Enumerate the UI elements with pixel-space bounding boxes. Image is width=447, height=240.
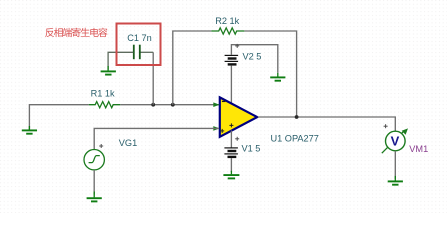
plus marker V1 [235,137,239,141]
wire: V2 positive to ground [231,45,277,73]
junction node at R2 tap [171,103,175,107]
input pin arrows [213,102,219,107]
ground (V2) [270,73,285,81]
wire: V1 to ground [230,158,232,172]
resistor R1 [89,102,120,108]
annotation red text [45,28,107,37]
ground (V1) [223,171,239,179]
wire: VM1 to ground [394,151,396,179]
annotation red box around C1 [117,24,161,66]
svg-text:VM1: VM1 [409,144,428,154]
plus marker VG1 [99,144,103,148]
svg-text:U1 OPA277: U1 OPA277 [271,133,319,143]
wire: VG1 to non-inverting input [94,128,219,149]
junction node at C1 tap [151,103,155,107]
resistor R2 [211,28,244,34]
ground (VM1) [388,176,403,185]
svg-text:V: V [391,134,400,149]
wire: C1 left lead to ground [108,52,133,69]
svg-text:V2 5: V2 5 [243,52,262,62]
minus marker (inv input) [222,100,226,102]
ground (C1) [101,66,116,75]
op-amp U1 [220,97,257,136]
svg-text:R2 1k: R2 1k [215,16,239,26]
junction node at output/feedback [295,115,299,119]
wire: inverting net horizontal from left ground corner to op-amp [29,105,88,130]
wire: V2 bottom to op-amp V- pin [230,66,232,104]
wire: C1 branch vertical [152,52,154,104]
source VG1 [84,150,104,170]
wire: output net [258,117,396,131]
wire: VG1 to ground [93,170,95,195]
wire: feedback right side down to output [244,31,296,117]
svg-text:C1 7n: C1 7n [127,33,152,43]
plus marker (pos supply inside) [229,123,233,127]
plus marker VM1 [384,124,388,128]
battery V1 [224,148,238,157]
plus marker V2 [235,44,239,48]
voltmeter VM1 [382,128,408,153]
ground (VG1) [87,192,102,202]
svg-text:V1 5: V1 5 [242,144,261,154]
wire: C1 right lead [141,51,154,53]
svg-text:R1 1k: R1 1k [91,89,115,99]
svg-text:VG1: VG1 [119,138,137,148]
battery V2 [225,55,239,64]
capacitor C1 [134,45,140,60]
ground (left, at R1 input) [22,126,37,134]
wire: feedback branch up/over [173,31,212,105]
plus marker (non-inv input) [220,129,224,133]
wire: op-amp bottom supply pin to V1 [230,131,232,148]
